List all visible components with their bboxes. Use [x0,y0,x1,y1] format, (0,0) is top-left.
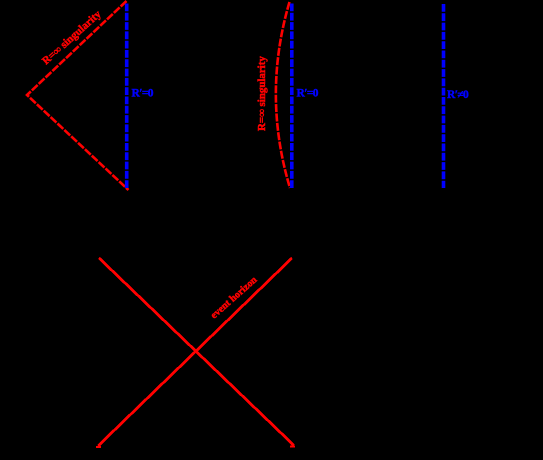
svg-text:R′≠0: R′≠0 [447,89,469,101]
svg-text:R=∞ singularity: R=∞ singularity [256,56,268,131]
svg-text:R′=0: R′=0 [132,88,154,100]
svg-text:R′=0: R′=0 [297,88,319,100]
